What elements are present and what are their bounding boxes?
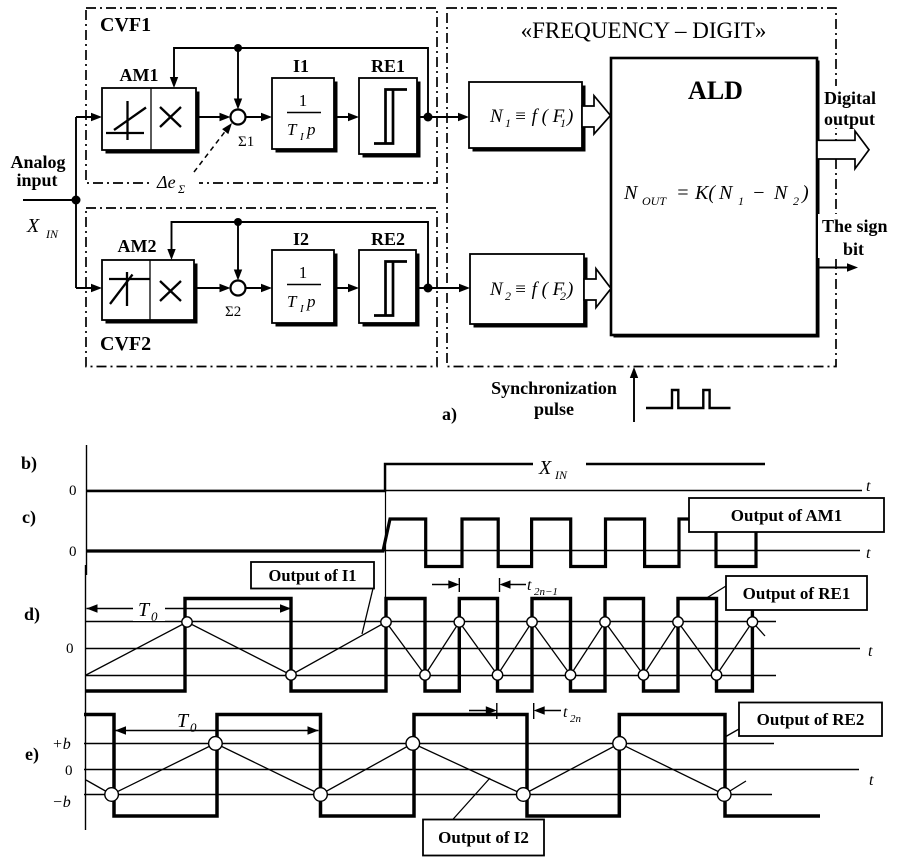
svg-text:−: −: [752, 182, 766, 204]
svg-text:pulse: pulse: [534, 399, 574, 419]
svg-text:N: N: [773, 182, 789, 204]
svg-text:t: t: [868, 643, 873, 660]
svg-text:2: 2: [560, 289, 566, 303]
svg-text:): ): [566, 279, 573, 300]
svg-text:p: p: [306, 120, 316, 139]
svg-text:N: N: [623, 182, 639, 204]
svg-text:X: X: [538, 457, 552, 479]
svg-text:N: N: [718, 182, 734, 204]
svg-text:2n: 2n: [570, 713, 582, 725]
svg-text:t: t: [866, 478, 871, 495]
svg-text:Analog: Analog: [10, 152, 65, 172]
svg-text:): ): [566, 106, 573, 127]
svg-text:N: N: [489, 279, 504, 300]
svg-text:IN: IN: [554, 468, 568, 482]
svg-text:c): c): [22, 507, 36, 528]
svg-text:d): d): [24, 604, 40, 625]
svg-text:X: X: [26, 215, 40, 237]
svg-text:RE2: RE2: [371, 229, 405, 249]
svg-text:I2: I2: [293, 229, 309, 249]
svg-text:=: =: [676, 182, 690, 204]
svg-text:Σ2: Σ2: [225, 304, 241, 320]
svg-text:Output of I1: Output of I1: [268, 566, 356, 585]
svg-text:0: 0: [69, 483, 77, 499]
svg-text:Output of AM1: Output of AM1: [731, 506, 842, 525]
svg-text:Output of RE1: Output of RE1: [743, 584, 851, 603]
svg-text:p: p: [306, 292, 316, 311]
svg-text:ALD: ALD: [688, 76, 743, 105]
svg-text:output: output: [824, 109, 875, 129]
svg-text:1: 1: [299, 263, 308, 282]
svg-text:RE1: RE1: [371, 56, 405, 76]
svg-text:input: input: [16, 170, 57, 190]
svg-text:«FREQUENCY – DIGIT»: «FREQUENCY – DIGIT»: [521, 18, 767, 43]
svg-text:2n−1: 2n−1: [534, 586, 558, 598]
svg-text:Σ1: Σ1: [238, 134, 254, 150]
svg-text:Δe: Δe: [156, 172, 176, 192]
svg-text:t: t: [527, 577, 532, 594]
svg-text:bit: bit: [843, 239, 864, 259]
svg-text:2: 2: [793, 194, 799, 208]
svg-text:OUT: OUT: [642, 194, 667, 208]
svg-text:Output of RE2: Output of RE2: [757, 710, 865, 729]
svg-text:t: t: [869, 772, 874, 789]
svg-text:IN: IN: [45, 227, 59, 241]
svg-text:0: 0: [69, 544, 77, 560]
svg-text:T: T: [287, 120, 298, 139]
svg-text:0: 0: [151, 609, 158, 624]
svg-text:K(: K(: [694, 182, 716, 204]
svg-text:≡ f ( F: ≡ f ( F: [514, 106, 565, 127]
svg-text:Σ: Σ: [177, 182, 185, 196]
svg-text:−b: −b: [52, 794, 71, 811]
svg-text:e): e): [25, 744, 39, 765]
svg-text:): ): [801, 182, 809, 204]
svg-text:a): a): [442, 404, 457, 425]
svg-text:0: 0: [190, 720, 197, 735]
svg-text:t: t: [563, 704, 568, 721]
svg-text:CVF1: CVF1: [100, 14, 151, 36]
svg-text:1: 1: [505, 116, 511, 130]
svg-text:1: 1: [738, 194, 744, 208]
svg-text:The sign: The sign: [822, 216, 888, 236]
svg-text:Synchronization: Synchronization: [491, 378, 617, 398]
svg-text:T: T: [287, 292, 298, 311]
svg-text:N: N: [489, 106, 504, 127]
svg-text:0: 0: [65, 763, 73, 779]
svg-text:≡ f ( F: ≡ f ( F: [514, 279, 565, 300]
svg-text:+b: +b: [52, 736, 71, 753]
svg-text:T: T: [138, 599, 151, 621]
svg-text:CVF2: CVF2: [100, 333, 151, 355]
svg-text:1: 1: [560, 116, 566, 130]
svg-text:Digital: Digital: [824, 88, 876, 108]
svg-text:T: T: [177, 710, 190, 732]
svg-text:AM2: AM2: [118, 236, 157, 256]
svg-text:I1: I1: [293, 56, 309, 76]
svg-text:b): b): [21, 453, 37, 474]
svg-text:0: 0: [66, 641, 74, 657]
svg-text:t: t: [866, 545, 871, 562]
svg-text:2: 2: [505, 289, 511, 303]
svg-text:1: 1: [299, 91, 308, 110]
svg-text:AM1: AM1: [120, 65, 159, 85]
svg-text:Output of I2: Output of I2: [438, 828, 529, 847]
